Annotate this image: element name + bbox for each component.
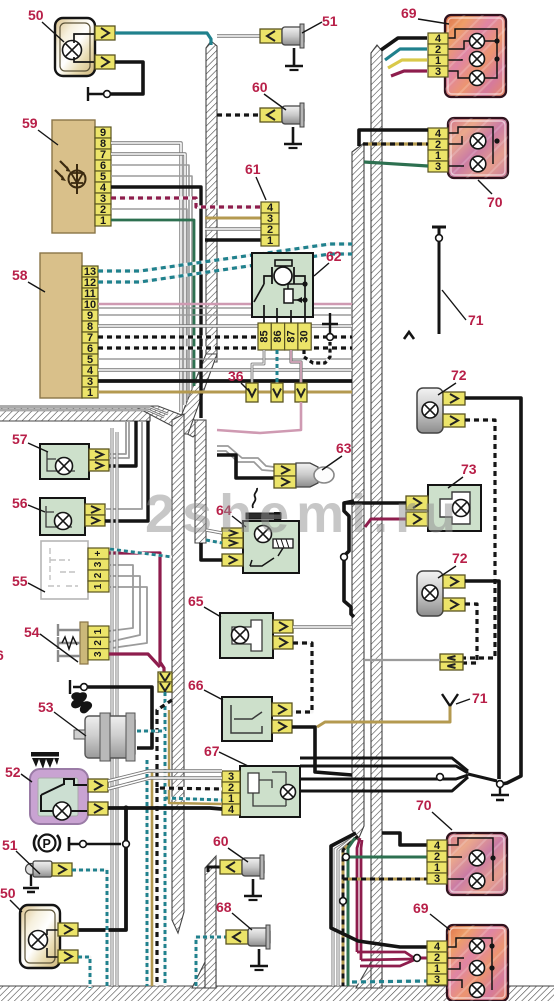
junction dot 52 black [123,805,128,810]
wire black to 64 [201,543,222,560]
harness sheath main jog [174,354,217,434]
connector pin 51 top [260,29,282,43]
harness sheath right-inner vertical [352,143,364,840]
svg-text:3: 3 [434,974,440,986]
wire white along band b [0,410,164,417]
lamp in 56 [55,513,72,530]
wire inside 50 lower [47,930,60,957]
wire teal from 50 to main harness [115,33,211,45]
wire black-white striped from 72l bottom [463,604,477,663]
lamp 2 in 69 bottom [470,961,485,976]
pin block 67 [222,771,240,782]
wire teal to 64 [206,540,222,543]
lamp in 57 [56,458,73,475]
wire grey 59 pin5 [111,176,192,390]
harness sheath bottom horizontal [0,986,554,1001]
pin row 85 86 87 30 of relay 62 [258,323,271,350]
internal wiring 70 bottom [447,838,493,881]
handbrake symbol P [39,835,56,852]
harness sheath bottom-mid vertical [205,856,216,988]
sensor 54 holder [80,622,88,664]
fog lamp 73 body [428,485,481,531]
wire black 57 up [109,421,136,466]
fork symbol 71 lower [442,694,458,706]
lamp 2 in 70 top [470,156,486,172]
wire teal 51 down [72,870,107,988]
courtesy lamp 50 housing [55,18,95,76]
wire black to 61 pin1 [205,238,261,241]
svg-text:3: 3 [93,651,104,657]
connector 64 top [222,528,243,538]
svg-text:55: 55 [12,573,28,589]
connector 68 [226,930,248,944]
handbrake switch 51 body [26,864,37,875]
switch 52 internals [41,779,87,811]
ground symbol for 51 top [285,48,303,66]
wire black 58 pin3 [98,379,352,383]
ground symbol for pump [70,680,80,694]
svg-text:51: 51 [2,837,18,853]
wire grey loop 55-54 a [109,565,133,631]
connector pin 60 top [260,108,282,122]
lamp in 72 upper [422,402,438,418]
lamp 3 in 69 bottom [470,983,485,998]
wire grey 59 pin2 [111,209,187,401]
switch 66 body [222,697,272,741]
sensor 54 pins [58,624,80,662]
lamp unit 56 body [40,498,85,535]
wire khaki left vertical [151,772,154,986]
connector 36a [246,383,258,402]
svg-text:85: 85 [259,330,271,342]
connector pin 50 top [95,26,115,40]
harness sheath right-outer vertical [371,45,382,988]
lamp 1 in 70 bottom [469,850,485,866]
connector 52 top [88,779,108,792]
wire grey loop 55-54 b [109,576,140,642]
antenna rod 71 [432,227,446,334]
relay 62 body [252,253,313,317]
svg-text:60: 60 [213,833,229,849]
svg-text:3: 3 [434,873,440,885]
wire teal diag into band [110,549,172,557]
svg-text:63: 63 [336,440,352,456]
wire black-white striped 65 to 66 [292,643,312,712]
lamp unit 57 inner [47,452,75,471]
svg-text:3: 3 [435,66,441,78]
wire teal branch to 67 pin1 [165,798,222,800]
harness sheath left-fork vertical [172,414,184,933]
junction dots 69 bottom [489,943,494,948]
svg-text:68: 68 [216,899,232,915]
wire khaki to 61 pin3 [205,217,261,220]
junction dot 70 top [494,138,499,143]
ground symbol 68 [250,949,268,966]
svg-text:69: 69 [401,5,417,21]
wire yellow to 69 pin1 [388,60,427,68]
ground symbol for 50 [88,87,104,101]
svg-text:57: 57 [12,431,28,447]
wire grey 59 pin6 [111,165,189,396]
antenna circle 71 [436,235,443,242]
connector 72u bottom [443,414,465,427]
junction circle crimson [414,955,421,962]
connector 63 [274,464,296,476]
svg-text:50: 50 [0,885,16,901]
wire teal striped from 86 [276,350,279,383]
wire black bracket 58pin3 [344,501,354,617]
wire inside 50 [74,34,95,62]
junction dots in 62 [302,281,307,286]
wire black harnessA to 70 pin4 [359,130,428,146]
wire white 58 pin4 [98,368,352,371]
wire black 59 pin4 [111,187,201,418]
wire black-white striped 58 pin6 [98,346,352,349]
internal wiring 70 top [448,127,493,166]
wire white from harness to 51 [217,34,262,37]
wire black bandB to 70b pin4 [382,833,427,845]
junction dot 70 bottom [490,855,495,860]
ground symbol for 60 top [284,127,302,144]
wire black 52 to 67 pin4 [108,808,222,809]
merge bundle from 67 [300,758,468,771]
connector 36b [271,383,283,402]
wire pink from 87 [291,350,301,383]
junction circle ground52 [123,841,130,848]
connector 73 top [406,496,428,510]
svg-text:72: 72 [451,367,467,383]
svg-text:1: 1 [87,387,93,399]
wire grey pair to 63 [217,446,274,467]
wire teal pump connect [137,730,165,733]
junction circle right [497,781,504,788]
wire white a down [333,835,354,986]
wire grey from connector to harnessA [364,659,440,661]
wire teal to 69b pin3 [352,981,427,982]
lamp unit 56 inner [46,506,72,527]
wire white vertical left a [111,428,114,986]
wire red-white striped 59 pin3 to 61 pin4 [111,198,261,207]
pin block 69 bottom [427,941,447,952]
wire khaki harness to fork 71 [317,706,450,727]
pin block 54 [88,626,109,637]
lamp unit 57 body [40,444,89,479]
wire teal striped 58 pin13 [98,244,352,271]
lamp unit 65 body [220,613,273,658]
ground circle pump [81,684,88,691]
junction dots 69 top [494,38,499,43]
junction circle on black bracket [341,554,348,561]
lamp cluster 70 bottom housing [447,833,507,895]
cigarette icon [246,513,281,519]
sensor 68 body [248,928,270,946]
connector 50l top [58,923,78,936]
svg-text:52: 52 [5,764,21,780]
ground symbol bottom right [491,788,509,800]
wire crimson harnessA to 73 [365,519,406,527]
pump 53 body [85,716,135,758]
wire white from 85 [252,350,264,383]
resistor in 64 [273,539,293,548]
lighter 64 body [243,521,299,573]
wire white to 61 pin2 [205,227,261,230]
wire khaki down [343,836,358,986]
svg-text:59: 59 [22,115,38,131]
wire crimson down b [361,840,362,960]
connector 36c [295,383,307,402]
junction circle green [343,854,350,861]
wire grey loop 55-54 c [109,587,147,648]
wire green down [348,838,355,986]
connector 73 bottom [406,512,428,526]
lamp 2 in 70 bottom [469,873,485,889]
wire white 59 pin7 [111,154,185,405]
wire white b down [338,835,356,986]
svg-text:71: 71 [472,690,488,706]
lamp cluster 69 bottom housing [447,925,508,1001]
wire white pair 52 to 67 pin3 [108,771,222,781]
svg-text:70: 70 [487,194,503,210]
harness sheath merge B-H2 [356,962,382,988]
ground circle 52 [80,841,87,848]
wire black-white striped from 30 to power tap [304,342,330,363]
svg-text:2: 2 [93,572,104,578]
connector 72l bottom [443,598,465,611]
fan symbol [71,692,92,713]
wire to 60 lower [208,867,222,872]
connector 72l top [443,575,465,588]
harness sheath mid vertical short [195,420,206,543]
photo symbol in 59 [69,171,86,188]
wire black ground to pump [88,687,152,748]
wire teal striped left vertical [146,760,149,986]
wire black from 50 to ground [110,62,143,94]
wire crimson to 69 pin3 [391,71,427,76]
wire white 59 pin8 [111,143,181,412]
ground bar 52 [69,837,121,851]
lamp in 73 [453,500,470,517]
wire black-white striped from 72u bottom [463,420,495,658]
junction circle on bundle [437,774,444,781]
side repeater 72 lower body [417,571,443,616]
svg-text:3: 3 [93,561,104,567]
connector 66 top [272,703,292,716]
wire teal-striped below connector [164,692,167,986]
wire black-white striped to 67 pin2 [157,700,222,789]
wire pink 36c to harness [217,402,301,433]
svg-text:1: 1 [93,583,104,589]
wire black-white striped 58 pin7 [98,335,352,338]
wire black-white striped harness to 60 [217,113,262,116]
wire teal striped 58 pin12 [98,254,352,282]
wire khaki striped to 70 pin2 [363,142,428,145]
svg-text:4: 4 [228,804,235,816]
wire grey 58 pin9 [98,314,352,316]
svg-text:P: P [43,837,51,851]
svg-text:69: 69 [413,900,429,916]
svg-text:87: 87 [285,330,297,342]
harness sheath merge M3-H2 [192,962,216,988]
internal wiring 69 bottom [447,938,492,990]
pin block 69 top [428,33,448,44]
wire crimson trident [357,952,414,958]
lamp 1 in 69 bottom [470,939,485,954]
unit 55 body [41,541,88,599]
ground symbol 60 lower [244,879,262,896]
svg-text:3: 3 [435,161,441,173]
lamp 1 in 69 top [470,34,485,49]
svg-text:71: 71 [468,312,484,328]
power tap symbol near relay 62 [322,313,338,333]
switch in 64 [250,548,283,566]
wire khaki 58 pin1 [98,391,352,394]
svg-text:6: 6 [0,647,4,663]
svg-text:58: 58 [12,267,28,283]
wire crimson 54 pin3 [109,654,160,667]
courtesy lamp 50 lower housing [20,905,60,968]
wire pink 58 pin10 [98,303,352,306]
wire teal 50l down [78,957,90,988]
bulb 63 [296,463,318,487]
lamp cluster 69 top housing [445,15,506,97]
wire green 59 pin1 [111,220,194,386]
lamp in 50 lower [29,931,48,950]
svg-text:2: 2 [93,640,104,646]
wire grey 56 up [105,422,142,509]
wire black-white striped continue down [155,788,158,986]
svg-text:30: 30 [299,330,311,342]
wire white 58 pin8 [98,324,352,327]
wire green to 70 pin3 [364,162,428,166]
connector 66 bottom [272,720,292,733]
harness sheath diagonal junction [134,406,205,437]
lamp unit 65 inner [232,620,262,651]
illumination icon above 52 [31,752,59,757]
switch 67 internals [248,773,259,793]
lamp in 65 [232,627,249,644]
connector 57 [89,449,109,460]
harness sheath left horizontal [0,406,150,421]
svg-text:1: 1 [100,215,106,227]
svg-text:86: 86 [272,330,284,342]
connector 72u top [443,392,465,405]
pin block 70 bottom [427,840,447,851]
unit 55 inner dashes [48,548,78,586]
connector 65 top [273,620,293,633]
svg-text:36: 36 [228,368,244,384]
svg-text:51: 51 [322,13,338,29]
connector 50l bottom [58,950,78,963]
junction circle khaki [340,898,347,905]
connector 61 block [261,202,279,213]
power tap circle near relay 62 [327,334,334,341]
lamp in 72 lower [422,585,438,601]
svg-text:67: 67 [204,743,220,759]
connector 56 [85,504,105,515]
connector 60 lower [220,860,242,874]
wire teal to 68 [196,937,228,986]
wire green to 70b pin2 [348,856,427,859]
internal wiring 69 top [448,29,497,78]
lamp in 67 [281,785,296,800]
wire black 66 to harness [292,727,352,775]
lamp symbol inside 50 [63,41,82,60]
svg-text:66: 66 [188,677,204,693]
wire crimson down a [357,838,360,952]
wire black to 63 [217,455,274,478]
pin block 70 top [428,128,448,139]
side repeater 72 upper body [417,388,443,433]
wire white to 64 [206,530,222,533]
pin block 59 [95,127,111,138]
wire black harnessA to 73 [344,501,406,505]
svg-text:62: 62 [326,248,342,264]
svg-text:61: 61 [245,161,261,177]
sensor 60 body [282,106,304,124]
connector 52 bottom [88,802,108,815]
svg-text:50: 50 [28,7,44,23]
svg-text:1: 1 [267,235,273,247]
switch unit 67 body [240,766,300,817]
svg-text:53: 53 [38,699,54,715]
svg-text:70: 70 [416,797,432,813]
wire black 69b diag [331,833,427,947]
connector 65 bottom [273,636,293,649]
pin cells 55 [88,548,109,559]
connector 51 lower [52,863,72,876]
relay 62 internals [275,260,292,266]
wire teal to 69 pin2 [385,49,427,60]
lamp 1 in 70 top [470,133,486,149]
wire khaki to 70b pin3 [343,878,427,881]
svg-text:2shemi.ru: 2shemi.ru [145,484,463,544]
sensor 60 lower body [242,858,264,876]
wire black from 72l top [465,581,499,779]
wire white vertical left b [116,432,119,986]
svg-text:73: 73 [461,461,477,477]
wire grey 57 up [109,422,126,454]
inline connector crimson-teal [158,672,172,682]
switch unit 58 body [40,253,82,398]
sensor 51 body [282,27,304,45]
lamp cluster 70 top housing [448,118,508,178]
connector pair x [440,654,463,662]
wire black down to lamp 50 lower [78,808,126,930]
wire crimson from 55 plus [109,553,164,673]
svg-text:56: 56 [12,495,28,511]
connector 64 bottom [222,554,243,566]
switch unit 59 body [52,120,95,233]
lamp in 52 [53,802,71,820]
wire black to 69 pin4 [381,38,427,50]
fog lamp 73 inner shape [440,492,470,524]
connector pin 50 bottom [95,55,115,69]
wire grey 58 pin5 [98,358,352,360]
svg-text:65: 65 [188,593,204,609]
pin block 58 [82,266,98,277]
lamp 3 in 69 top [470,71,485,86]
svg-text:60: 60 [252,79,268,95]
wire black from 72u top [465,398,521,784]
switch 52 body [30,769,88,824]
chevron mark [404,332,414,339]
ground contact circle near 50 [104,91,111,98]
wire khaki pair to 67 pin1 [169,710,222,804]
wire white 65 top [293,625,352,628]
svg-text:72: 72 [452,550,468,566]
switch 66 inner [231,705,262,733]
lamp in 64 [255,526,272,543]
